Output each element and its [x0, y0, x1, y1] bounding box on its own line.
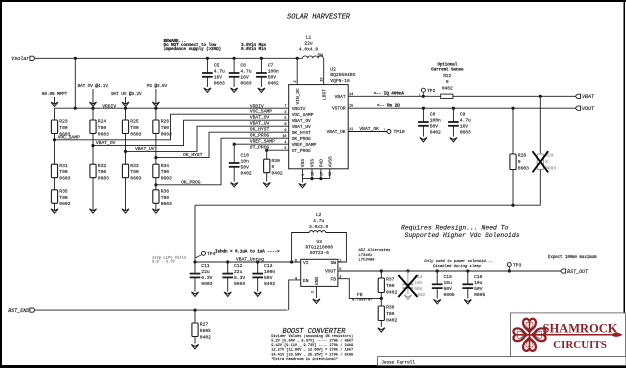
svg-text:80.8% MPPT: 80.8% MPPT	[42, 91, 68, 97]
svg-text:R32: R32	[98, 163, 107, 169]
svg-text:50V: 50V	[430, 124, 439, 130]
resistor R37	[378, 277, 397, 296]
wire VRDIV to R23	[54, 108, 56, 120]
svg-text:SW: SW	[318, 53, 324, 59]
wire R28 to connector	[512, 170, 514, 206]
ground C16	[464, 300, 471, 304]
ground C10	[231, 183, 238, 187]
wire C15 to ground	[436, 288, 438, 299]
svg-text:0402: 0402	[386, 289, 397, 295]
wire to C7	[260, 58, 262, 73]
ground C9	[450, 138, 457, 142]
svg-text:VBAT_UV: VBAT_UV	[135, 146, 155, 152]
capacitor C6	[229, 63, 252, 87]
svg-text:R31: R31	[59, 163, 68, 169]
svg-text:3: 3	[284, 111, 286, 115]
svg-text:TP2: TP2	[427, 88, 436, 94]
resistor R24	[90, 119, 109, 138]
wire R37 to R38	[380, 293, 382, 307]
wire net VOC_SAMP	[55, 114, 289, 140]
svg-text:4.7u: 4.7u	[313, 218, 324, 224]
svg-text:6.3V: 6.3V	[201, 275, 212, 281]
wire C13 to ground	[257, 277, 259, 291]
svg-text:0.795Vref: 0.795Vref	[352, 298, 373, 303]
wire VOUT to R28	[512, 108, 514, 154]
svg-text:C6: C6	[240, 63, 246, 69]
wire to R37	[380, 271, 382, 278]
wire VBAT from U2	[348, 95, 441, 97]
wire VRDIV to R24	[92, 108, 94, 120]
wire R29 to connector	[539, 170, 541, 206]
svg-text:0402: 0402	[430, 130, 441, 136]
svg-text:560k: 560k	[200, 328, 211, 334]
junction FB node	[380, 297, 383, 300]
junction VOC_SAMP tap	[53, 138, 56, 141]
junction Vsolar/divider	[74, 57, 77, 60]
svg-text:L1: L1	[306, 35, 312, 41]
wire net VREF_SAMP	[234, 143, 289, 145]
wire net OK_PROG	[156, 138, 289, 185]
wire R34 to R36	[155, 178, 157, 190]
wire to C16	[467, 271, 469, 284]
svg-text:VQFN-16: VQFN-16	[330, 78, 350, 84]
svg-text:50V: 50V	[414, 286, 423, 292]
svg-text:4.0x4.0: 4.0x4.0	[299, 47, 319, 53]
svg-text:T80: T80	[386, 311, 395, 317]
svg-text:VBAT: VBAT	[582, 94, 595, 100]
svg-text:LT3461: LT3461	[359, 254, 373, 258]
junction C5 tap	[206, 57, 209, 60]
svg-text:OK_PROG: OK_PROG	[181, 179, 201, 185]
svg-text:0402: 0402	[272, 171, 283, 177]
wire L2 to SW pin	[326, 233, 347, 263]
wire to C15	[436, 271, 438, 284]
port VBAT	[575, 94, 595, 100]
junction VBAT_UV tap	[124, 150, 127, 153]
svg-text:0603: 0603	[59, 176, 70, 182]
svg-text:VRDIV: VRDIV	[250, 103, 264, 109]
svg-text:0: 0	[272, 164, 275, 170]
wire to C8	[422, 108, 424, 122]
svg-text:VBAT_UV: VBAT_UV	[292, 124, 311, 130]
resistor R31	[51, 163, 70, 182]
wire R24 to R32	[92, 134, 94, 165]
ground col1	[51, 209, 58, 213]
svg-text:VBAT_OV: VBAT_OV	[96, 140, 116, 146]
svg-text:9.42V [9.11V _ 9.73V] ---- 270: 9.42V [9.11V _ 9.73V] ---- 270k / 24k9	[271, 343, 353, 348]
svg-text:12.27V [11.86V _ 12.69V] = 270: 12.27V [11.86V _ 12.69V] = 270k / 18k7	[271, 348, 353, 353]
svg-text:CIRCUITS: CIRCUITS	[553, 339, 607, 351]
svg-text:T80: T80	[130, 125, 139, 131]
resistor R35	[51, 188, 70, 207]
svg-text:0603: 0603	[518, 165, 529, 171]
svg-text:SOLAR HARVESTER: SOLAR HARVESTER	[287, 14, 351, 22]
wire R25 to R33	[125, 134, 127, 165]
svg-text:VOC_SAMP: VOC_SAMP	[292, 112, 314, 118]
logo Shamrock Circuits box	[510, 313, 625, 357]
svg-text:R25: R25	[130, 119, 139, 125]
wire C12 to ground	[227, 277, 229, 291]
test point TP3	[507, 262, 521, 271]
svg-text:R30: R30	[272, 158, 281, 164]
svg-text:T80: T80	[59, 125, 68, 131]
svg-text:2: 2	[294, 80, 298, 82]
svg-text:22u: 22u	[201, 269, 210, 275]
svg-text:R35: R35	[59, 188, 68, 194]
junction OK_PROG tap	[154, 183, 157, 186]
wire C5 to ground	[206, 77, 208, 87]
svg-text:10u: 10u	[444, 280, 453, 286]
junction R28 bottom	[511, 204, 514, 207]
wire VBAT to port	[453, 95, 576, 97]
wire to C6	[233, 58, 235, 73]
ground C13	[254, 292, 261, 296]
author box	[378, 357, 626, 366]
svg-text:VSTOR: VSTOR	[332, 106, 346, 112]
wire BST_OUT rail	[338, 270, 561, 272]
svg-text:0603: 0603	[59, 201, 70, 207]
resistor R27	[192, 322, 211, 341]
svg-text:3.0x3.0: 3.0x3.0	[309, 224, 329, 230]
svg-text:VBAT_Unreg: VBAT_Unreg	[236, 257, 264, 263]
svg-text:PAD: PAD	[319, 159, 325, 167]
svg-text:0402: 0402	[442, 86, 453, 92]
svg-text:LBST: LBST	[322, 89, 328, 100]
capacitor C14 (DNP)	[403, 274, 426, 298]
svg-text:0603: 0603	[98, 176, 109, 182]
logo stem	[530, 334, 613, 336]
svg-text:LTC3400: LTC3400	[359, 258, 376, 262]
ground C7	[258, 88, 265, 92]
svg-text:4.7u: 4.7u	[460, 118, 471, 124]
wire bus to ground	[301, 179, 303, 183]
svg-text:SW: SW	[331, 260, 337, 266]
IC U3 body	[301, 259, 338, 286]
DNP X over R29	[533, 151, 549, 172]
resistor R23	[51, 119, 70, 138]
svg-text:16V: 16V	[460, 124, 469, 130]
svg-text:0402: 0402	[386, 317, 397, 323]
junction C12 tap	[226, 260, 229, 263]
port Vsolar	[11, 56, 35, 62]
wire EN to BST_END	[289, 280, 301, 310]
wire to R27	[194, 310, 196, 323]
svg-text:T80: T80	[386, 283, 395, 289]
svg-text:VSS: VSS	[300, 159, 306, 167]
wire C8 to ground	[422, 126, 424, 137]
svg-text:0603: 0603	[214, 81, 225, 87]
junction C8 tap	[422, 107, 425, 110]
svg-text:5: 5	[284, 117, 286, 121]
svg-text:<-- IQ 400nA: <-- IQ 400nA	[374, 91, 405, 97]
svg-text:VBAT_OK: VBAT_OK	[359, 126, 379, 132]
svg-text:VREF_SAMP: VREF_SAMP	[292, 142, 317, 148]
svg-text:50V: 50V	[268, 75, 277, 81]
wire C11 to ground	[194, 277, 196, 291]
svg-text:0: 0	[518, 159, 521, 165]
capacitor C13	[252, 263, 275, 287]
junction VSS bus	[310, 177, 313, 180]
svg-text:10n: 10n	[414, 280, 423, 286]
svg-text:9: 9	[284, 129, 286, 133]
junction C10 tap	[233, 143, 236, 146]
svg-text:Divider Values (assuming 1% re: Divider Values (assuming 1% resistors)	[271, 334, 353, 339]
svg-text:U2: U2	[330, 67, 336, 73]
svg-text:100n: 100n	[264, 269, 275, 275]
svg-text:R38: R38	[386, 305, 395, 311]
resistor R32	[90, 163, 109, 182]
capacitor C5	[202, 63, 225, 87]
svg-text:BST_END: BST_END	[8, 308, 29, 314]
svg-text:50V: 50V	[444, 286, 453, 292]
wire VRDIV to R26	[155, 108, 157, 120]
wire R35 to ground	[54, 203, 56, 213]
svg-text:22u: 22u	[304, 41, 313, 47]
resistor R38	[378, 305, 397, 324]
ground U3	[313, 299, 320, 303]
wire FB	[338, 279, 381, 299]
wire to VIN_DC pin2	[296, 58, 298, 84]
capacitor C11	[190, 263, 213, 287]
sheet border right	[624, 0, 626, 368]
svg-text:0603: 0603	[98, 131, 109, 137]
ground R38	[378, 328, 385, 332]
junction R30 tap	[265, 149, 268, 152]
wire C7 to ground	[260, 77, 262, 87]
svg-text:0603: 0603	[240, 81, 251, 87]
svg-text:SHAMROCK: SHAMROCK	[543, 322, 618, 336]
wire VI to L2	[292, 233, 310, 263]
wire VBAT to R29	[539, 96, 541, 154]
svg-text:0805: 0805	[444, 292, 455, 298]
svg-text:3: 3	[339, 276, 341, 280]
svg-text:1: 1	[339, 260, 341, 264]
wire to C12	[227, 262, 229, 274]
svg-text:BAT OV @4.1V: BAT OV @4.1V	[78, 83, 109, 89]
svg-text:R36: R36	[161, 188, 170, 194]
svg-text:<-- Rs 2Ω: <-- Rs 2Ω	[377, 103, 400, 109]
svg-text:PG @3.5V: PG @3.5V	[147, 83, 168, 89]
arrow BAT UV	[122, 97, 129, 107]
test point TP19	[383, 128, 405, 135]
junction R37 tap	[380, 269, 383, 272]
inductor L1	[303, 56, 324, 58]
op-amp U2 BQ25504RG body	[289, 85, 349, 169]
arrow PG	[152, 89, 159, 107]
svg-text:FB: FB	[331, 277, 337, 283]
svg-text:VBAT_OV: VBAT_OV	[292, 118, 311, 124]
arrow BAT OV	[89, 89, 96, 107]
svg-text:C9: C9	[460, 112, 466, 118]
junction C13 tap	[256, 260, 259, 263]
svg-text:R28: R28	[518, 153, 527, 159]
junction VBAT_OV tap	[91, 144, 94, 147]
svg-text:VRDIV: VRDIV	[292, 106, 306, 112]
svg-text:Current Sense: Current Sense	[431, 67, 464, 72]
wire net VBAT_UV	[126, 126, 289, 151]
wire Vsolar to VRDIV rail	[74, 58, 76, 108]
wire net VBAT_OV	[93, 120, 289, 145]
svg-text:VSS: VSS	[310, 159, 316, 167]
svg-text:4: 4	[284, 141, 286, 145]
ground col4	[152, 209, 159, 213]
ground R30	[263, 183, 270, 187]
svg-text:BQ25504RG: BQ25504RG	[330, 72, 355, 78]
ground C12	[224, 292, 231, 296]
wire VREF_SAMP to C10	[233, 144, 235, 163]
svg-text:R26: R26	[161, 119, 170, 125]
svg-text:0603: 0603	[161, 176, 172, 182]
svg-text:R37: R37	[386, 277, 395, 283]
svg-text:T80: T80	[59, 195, 68, 201]
svg-text:TP19: TP19	[394, 129, 405, 135]
svg-text:0603: 0603	[201, 281, 212, 287]
svg-text:C13: C13	[264, 263, 273, 269]
wire net OK_HYST	[156, 132, 289, 157]
svg-text:R23: R23	[59, 119, 68, 125]
svg-text:BAT UV @3.2V: BAT UV @3.2V	[111, 91, 142, 97]
svg-text:0603: 0603	[161, 201, 172, 207]
junction R29 tap	[539, 95, 542, 98]
port BST_OUT	[561, 269, 590, 275]
svg-text:16V: 16V	[214, 75, 223, 81]
svg-text:U3: U3	[317, 239, 323, 245]
resistor R22 (current sense)	[441, 94, 453, 98]
svg-text:VOUT: VOUT	[325, 268, 336, 274]
wire C9 to ground	[452, 126, 454, 137]
svg-text:0: 0	[446, 79, 449, 85]
sheet border bottom	[0, 365, 626, 368]
svg-text:50V: 50V	[474, 286, 483, 292]
svg-text:T80: T80	[161, 125, 170, 131]
capacitor C7	[256, 63, 279, 87]
wire VBAT_Unreg connector	[195, 204, 540, 206]
junction TP3	[508, 269, 511, 272]
wire to C14	[407, 271, 409, 284]
svg-text:C16: C16	[474, 274, 483, 280]
wire VRDIV rail	[55, 107, 289, 109]
resistor R28	[510, 153, 529, 172]
svg-text:R33: R33	[130, 163, 139, 169]
svg-text:0603: 0603	[130, 176, 141, 182]
svg-text:100n: 100n	[268, 69, 279, 75]
svg-text:VBAT_OK: VBAT_OK	[326, 129, 345, 135]
sheet border left	[0, 0, 2, 368]
wire to C9	[452, 108, 454, 122]
svg-text:T80: T80	[161, 195, 170, 201]
svg-text:VBAT: VBAT	[335, 94, 346, 100]
junction rail left	[193, 260, 196, 263]
wire R30 to ground	[266, 173, 268, 182]
svg-text:16: 16	[321, 77, 325, 81]
svg-text:0.6Vin Min: 0.6Vin Min	[241, 46, 267, 52]
svg-text:4.7u: 4.7u	[214, 69, 225, 75]
wire C16 to ground	[467, 288, 469, 299]
junction R25 top	[124, 107, 127, 110]
junction R27 tap	[193, 309, 196, 312]
test point TP4	[195, 251, 216, 258]
svg-text:OK_PROG: OK_PROG	[292, 136, 311, 142]
ground U2	[299, 183, 306, 187]
wire U3 GND	[315, 286, 317, 298]
svg-text:TP3: TP3	[513, 262, 522, 268]
ground C6	[231, 88, 238, 92]
DNP X over C14	[398, 275, 417, 297]
svg-text:OK_HYST: OK_HYST	[250, 127, 270, 133]
junction C16 tap	[466, 269, 469, 272]
svg-text:SOT23-6: SOT23-6	[310, 250, 330, 256]
svg-text:3.0 - 3.7V: 3.0 - 3.7V	[152, 261, 176, 265]
svg-text:T80: T80	[98, 169, 107, 175]
svg-text:OK_HYST: OK_HYST	[292, 130, 311, 136]
svg-text:R34: R34	[161, 163, 170, 169]
ground col3	[122, 209, 129, 213]
port BST_END	[8, 308, 35, 314]
svg-text:T80: T80	[59, 169, 68, 175]
resistor R25	[122, 119, 141, 138]
wire R23 to R31	[54, 134, 56, 165]
capacitor C10	[229, 153, 252, 177]
svg-text:10n: 10n	[241, 159, 250, 165]
wire VBAT_OK	[348, 131, 387, 133]
svg-text:Expect 100mA maximum: Expect 100mA maximum	[548, 255, 597, 260]
svg-text:1: 1	[419, 94, 421, 98]
svg-text:VRDIV: VRDIV	[102, 103, 116, 109]
svg-text:FB: FB	[357, 292, 363, 298]
wire VRDIV to R25	[125, 108, 127, 120]
svg-text:0402: 0402	[200, 334, 211, 340]
junction R26 top	[154, 107, 157, 110]
wire C14 to ground	[407, 288, 409, 294]
svg-text:4: 4	[295, 277, 297, 281]
capacitor C15	[432, 274, 455, 298]
junction PAD bus	[319, 177, 322, 180]
svg-text:5: 5	[284, 147, 286, 151]
svg-text:VOC_SAMP: VOC_SAMP	[58, 134, 80, 140]
svg-text:VI: VI	[303, 260, 309, 266]
svg-text:OT_PROG: OT_PROG	[292, 148, 311, 154]
svg-text:T80: T80	[130, 169, 139, 175]
svg-text:R22: R22	[443, 73, 451, 79]
junction C9 tap	[452, 107, 455, 110]
svg-text:C12: C12	[234, 263, 243, 269]
svg-text:VOUT: VOUT	[582, 106, 595, 112]
svg-text:8: 8	[284, 123, 286, 127]
svg-text:0402: 0402	[241, 171, 252, 177]
svg-text:C7: C7	[268, 63, 274, 69]
wire VSTOR to VOUT port	[348, 107, 575, 109]
wire to C13	[257, 262, 259, 274]
svg-text:6: 6	[295, 260, 297, 264]
svg-text:VIN_DC: VIN_DC	[295, 88, 301, 105]
junction OK_HYST tap	[154, 156, 157, 159]
svg-text:T80: T80	[98, 125, 107, 131]
svg-text:BST_OUT: BST_OUT	[567, 269, 589, 275]
svg-text:C15: C15	[444, 274, 453, 280]
svg-text:10: 10	[282, 135, 286, 139]
logo shamrock	[518, 334, 542, 336]
svg-text:6.3V: 6.3V	[234, 275, 245, 281]
svg-text:Supported Higher Vdc Solenoids: Supported Higher Vdc Solenoids	[405, 232, 520, 239]
test point TP2	[419, 88, 436, 98]
ground C8	[420, 138, 427, 142]
wire C10 to ground	[233, 167, 235, 182]
svg-text:C10: C10	[241, 153, 250, 159]
svg-text:Vsolar: Vsolar	[11, 56, 29, 62]
svg-text:0603: 0603	[130, 131, 141, 137]
svg-text:C11: C11	[201, 263, 210, 269]
wire R33 to ground	[125, 178, 127, 214]
